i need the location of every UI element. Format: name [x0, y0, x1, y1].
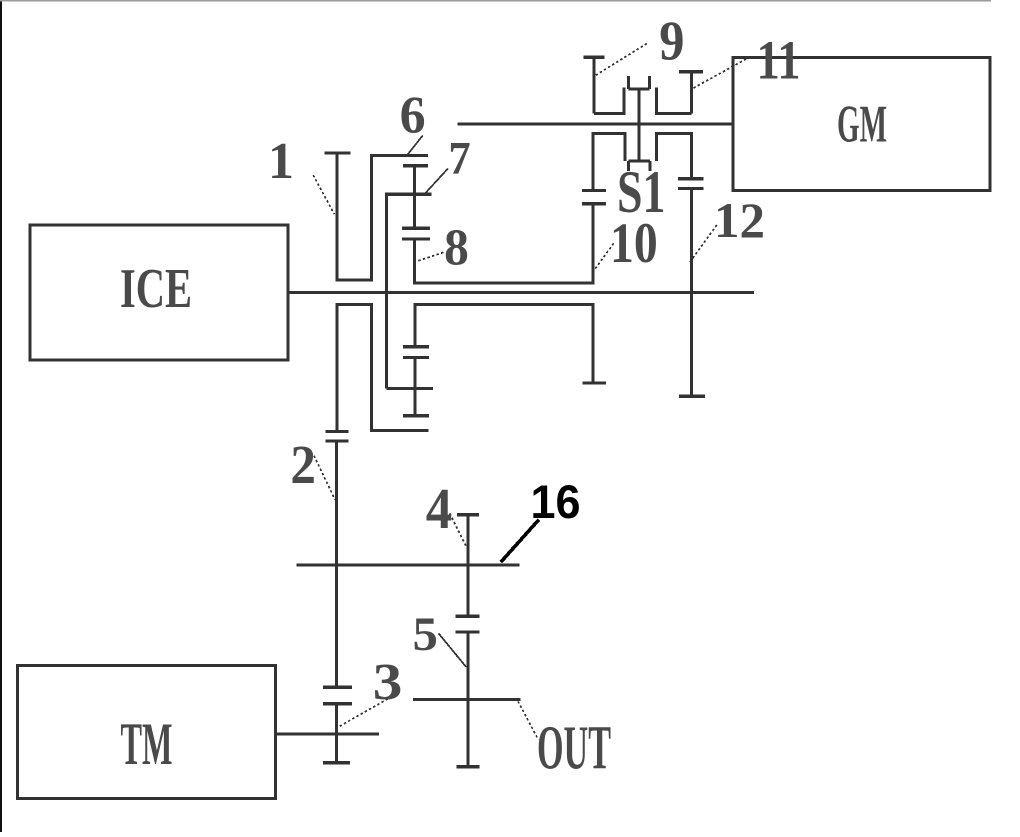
label 7 [448, 131, 470, 183]
ring 9 outer vertical [593, 57, 596, 113]
gear 5 stem [466, 632, 469, 767]
gear 3 foot cap [323, 761, 350, 764]
sun fork lower left leg [627, 161, 630, 171]
carrier fork upper bar [629, 88, 650, 91]
gear 8 mirror link [415, 303, 594, 306]
ring 11 bracket bottom [657, 112, 692, 115]
gear 10 bar A [582, 189, 606, 192]
clutch 1 mirror left vertical [336, 303, 339, 432]
ring 11 outer vertical [690, 72, 693, 114]
gear 8 lower stem [413, 239, 416, 285]
svg-text:1: 1 [268, 133, 294, 190]
bar 7 [387, 193, 432, 196]
svg-text:6: 6 [400, 86, 426, 144]
box GM (generator/motor) [733, 58, 990, 191]
gear 10 bar B [582, 202, 606, 205]
gear 5 bar B [455, 630, 479, 633]
svg-text:GM: GM [837, 96, 887, 154]
box ICE (engine) [30, 225, 288, 360]
svg-text:S1: S1 [617, 159, 666, 225]
svg-text:5: 5 [413, 607, 438, 660]
label 4 [426, 477, 452, 541]
ring 9 bracket bottom [594, 112, 624, 115]
gear 12 bar A [678, 177, 703, 180]
label 5 [413, 607, 438, 660]
gear 4 stem [466, 515, 469, 617]
leader 5 [439, 633, 467, 667]
clutch 1 mirror top bar [336, 303, 374, 306]
svg-text:TM: TM [121, 711, 173, 777]
ring 11 cap [679, 70, 703, 73]
gear 3 bar A [323, 686, 352, 689]
gear 3 stem [335, 704, 338, 763]
clutch 1 bottom bar [336, 279, 374, 282]
gear 8 mirror lower stem [414, 358, 417, 416]
svg-text:16: 16 [531, 475, 581, 528]
gear 8 mirror bar B [403, 356, 429, 359]
clutch 1 mirror bottom bar [370, 429, 429, 432]
svg-text:11: 11 [757, 29, 801, 90]
svg-text:2: 2 [290, 435, 316, 495]
label 9 [659, 10, 684, 72]
clutch 1 right vertical [370, 154, 373, 282]
clutch 1 stem [336, 152, 339, 282]
shaft countershaft 16 [297, 564, 520, 567]
leader 12 [690, 224, 718, 262]
gear 2 bar B [325, 439, 348, 442]
leader 8 [418, 252, 444, 261]
leader 2 [314, 456, 335, 500]
ring 11 inner vertical [655, 88, 658, 115]
carrier fork upper right leg [648, 76, 651, 89]
leader 4 [450, 514, 468, 549]
leader 10 [595, 242, 614, 268]
shaft ICE main [288, 291, 754, 294]
node 10 foot cap [582, 381, 606, 384]
svg-text:7: 7 [448, 131, 470, 183]
gear 2 shaft [335, 441, 338, 687]
carrier fork upper left leg [627, 76, 630, 89]
gear 12 bar B [678, 187, 703, 190]
svg-text:12: 12 [714, 192, 765, 248]
leader 1 [313, 175, 334, 214]
link gear8 to node 10 [414, 282, 594, 285]
leader 3 [336, 694, 398, 729]
leader 6 [408, 136, 423, 155]
gear 2 bar A [325, 430, 348, 433]
sun bracket top bar right [657, 132, 692, 135]
svg-text:4: 4 [426, 477, 452, 541]
shaft input/planetary (GM shaft) [457, 122, 733, 125]
label 2 [290, 435, 316, 495]
box TM (traction motor) [18, 666, 276, 799]
svg-text:8: 8 [444, 219, 469, 276]
clutch 1 mirror right vertical [370, 303, 373, 430]
label 3 [373, 653, 403, 711]
gear 3 bar B [323, 702, 352, 705]
gear 6 lower bar [403, 164, 428, 167]
sun fork right inner vertical [655, 132, 658, 161]
svg-text:9: 9 [659, 10, 684, 72]
shaft OUT [413, 698, 520, 701]
leader 9 [596, 43, 648, 75]
label 6 [400, 86, 426, 144]
scan border top edge [0, 0, 991, 2]
gear 6 stem [413, 166, 416, 195]
sun fork left inner vertical [624, 132, 627, 161]
svg-text:ICE: ICE [120, 258, 192, 320]
scan border left edge [0, 0, 2, 832]
gear 8 mirror vertical [414, 303, 417, 347]
label 8 [444, 219, 469, 276]
leader 16 (black) [501, 520, 539, 562]
shaft TM [276, 732, 379, 735]
gear 10 lower vertical [592, 204, 595, 285]
clutch 1 top bar to gear 6 [370, 154, 428, 157]
sun bracket top bar left [593, 132, 625, 135]
gear 4 cap [457, 513, 479, 516]
gear 8 bar B [402, 237, 430, 240]
carrier foot 7 [387, 387, 433, 390]
gear 5 bar A [455, 615, 479, 618]
ring 9 inner vertical [623, 88, 626, 115]
planet pin S1 [638, 89, 641, 161]
ring 9 cap [583, 56, 604, 59]
label 1 [268, 133, 294, 190]
gear 12 long vertical [690, 189, 693, 397]
node 10 lower vertical [592, 305, 595, 384]
gear 8 bar A [402, 226, 430, 229]
sun gear 10 outer vertical [592, 132, 595, 191]
gear 12 foot cap [679, 395, 705, 398]
leader OUT [518, 701, 538, 739]
gear 12 vertical upper [690, 132, 693, 179]
sun fork lower bar [629, 160, 651, 163]
carrier vertical 7 [385, 193, 388, 389]
svg-text:3: 3 [373, 653, 403, 711]
clutch 1 cap [325, 151, 351, 154]
gear 5 foot cap [457, 765, 480, 768]
gear 8 mirror foot bar [403, 414, 429, 417]
leader 11 [694, 58, 749, 88]
svg-text:OUT: OUT [537, 713, 611, 783]
leader 7 [425, 169, 448, 194]
gear 8 mirror bar A [403, 345, 429, 348]
gear 8 upper stem [413, 194, 416, 228]
sun fork lower right leg [649, 161, 652, 171]
